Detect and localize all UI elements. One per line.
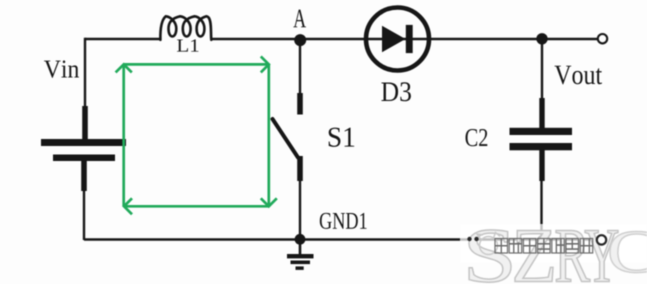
switch S1 top contact xyxy=(297,93,303,115)
wire left vertical lower xyxy=(83,190,85,240)
green current loop top edge arrow right xyxy=(124,56,269,72)
label Vin xyxy=(44,60,79,77)
battery Vin top plate xyxy=(41,139,126,146)
switch S1 bottom contact xyxy=(297,156,303,181)
label GND1 xyxy=(320,213,367,229)
diode D3 circle xyxy=(366,8,429,71)
switch S1 blade xyxy=(273,119,299,158)
watermark mascot dots xyxy=(467,237,471,241)
label C2 xyxy=(466,129,488,146)
green current loop bottom edge arrow left xyxy=(124,198,269,214)
label L1 xyxy=(177,39,199,51)
capacitor C2 top plate xyxy=(510,128,573,135)
wire output branch upper xyxy=(541,40,543,100)
ground GND1 bar 2 xyxy=(291,261,311,265)
wire switch branch upper xyxy=(299,43,301,96)
watermark mascot icon xyxy=(477,233,500,255)
label S1 xyxy=(329,128,355,147)
wire switch branch lower xyxy=(299,180,301,240)
capacitor C2 bottom plate xyxy=(510,143,573,150)
ground GND1 bar 1 xyxy=(287,254,314,258)
diode D3 cathode bar xyxy=(406,25,413,53)
label Vout xyxy=(555,66,603,85)
wire capacitor to bottom rail xyxy=(540,180,542,240)
label D3 xyxy=(381,82,411,101)
green current loop left edge arrow up xyxy=(116,64,132,206)
node A junction dot xyxy=(294,34,306,46)
wire left vertical upper xyxy=(84,38,86,108)
battery Vin bottom lead xyxy=(81,161,87,191)
wire top rail left segment xyxy=(85,38,161,40)
watermark chinese caption glyph blocks xyxy=(495,239,593,254)
battery Vin top lead xyxy=(82,106,88,139)
capacitor C2 bottom lead xyxy=(539,150,544,181)
ground GND1 bar 3 xyxy=(296,266,304,270)
inductor L1 xyxy=(160,16,211,40)
ground GND1 stub xyxy=(299,241,302,255)
terminal bottom open circle xyxy=(597,235,606,244)
label A node name xyxy=(293,10,306,28)
diode D3 anode triangle xyxy=(382,26,406,52)
node output junction dot xyxy=(536,33,547,44)
node ground junction dot xyxy=(295,234,306,245)
watermark big letters SZRYC xyxy=(469,230,647,282)
node capacitor-rail junction dot xyxy=(537,235,545,243)
wire bottom rail xyxy=(84,238,598,240)
green current loop right edge arrow down xyxy=(261,64,277,206)
capacitor C2 top lead xyxy=(539,98,544,129)
wire top rail right segment xyxy=(211,38,598,40)
watermark background lightening xyxy=(460,224,647,263)
battery Vin bottom plate xyxy=(53,155,115,162)
terminal Vout open circle xyxy=(598,34,607,43)
